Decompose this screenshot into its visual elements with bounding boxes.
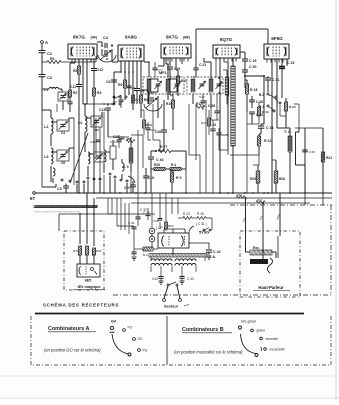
- svg-text:R17: R17: [257, 198, 263, 202]
- tone switch B2: [267, 93, 269, 95]
- bus wire 3: [131, 202, 310, 204]
- svg-text:R 26: R 26: [197, 212, 204, 216]
- trimmer C6b: [94, 152, 104, 162]
- svg-text:R3: R3: [97, 91, 101, 95]
- svg-text:C15: C15: [110, 140, 116, 144]
- wire: [185, 168, 187, 193]
- magic eye tube 6E5: [77, 264, 100, 277]
- resistor R27: [158, 149, 171, 152]
- svg-text:B 2: B 2: [259, 93, 264, 97]
- svg-text:B.A.: B.A.: [143, 253, 149, 257]
- speaker voice coil bar: [250, 259, 268, 264]
- resistor R32: [92, 248, 95, 255]
- svg-text:mmm m mmm mm m mmm mm mmm m mm: mmm m mmm mm m mmm mm mmm m mm: [34, 212, 80, 214]
- svg-text:R 20: R 20: [289, 105, 296, 109]
- svg-text:C 31: C 31: [272, 78, 279, 82]
- wire: [120, 61, 122, 72]
- tube V5 pin stubs: [266, 59, 268, 63]
- resistor R24b: [321, 152, 324, 162]
- wire: [130, 163, 132, 193]
- MF2 secondary coil: [209, 79, 213, 92]
- wire: [107, 198, 109, 214]
- IF transformer MF2 box: [187, 77, 223, 94]
- svg-text:R2: R2: [73, 91, 77, 95]
- capacitor C10: [67, 101, 72, 103]
- tube V4 6Q7G: [213, 45, 240, 58]
- wire: [41, 53, 43, 74]
- svg-text:R11: R11: [181, 79, 187, 83]
- resistor R8: [126, 140, 135, 143]
- wire: [150, 168, 152, 170]
- svg-text:Œil magique: Œil magique: [77, 284, 101, 289]
- ballast resistor: [143, 247, 153, 251]
- wire: [150, 257, 152, 261]
- svg-text:R 23: R 23: [183, 212, 190, 216]
- svg-text:L 9: L 9: [124, 165, 129, 169]
- svg-text:(MF): (MF): [183, 36, 190, 40]
- switch contacts: [87, 177, 89, 179]
- capacitor C45: [302, 149, 308, 151]
- svg-text:C14: C14: [90, 140, 96, 144]
- resistor R9: [170, 172, 173, 182]
- inductor L5b: [104, 150, 106, 162]
- svg-text:C6: C6: [61, 161, 65, 165]
- svg-text:L3: L3: [44, 155, 48, 159]
- svg-text:R 21: R 21: [264, 139, 271, 143]
- resistor R4b: [170, 167, 181, 170]
- resistor R30: [78, 246, 81, 255]
- tone switch B3: [267, 105, 269, 107]
- wire: [279, 105, 281, 116]
- wire: [159, 193, 161, 218]
- MF2 primary coil: [191, 79, 195, 92]
- mains switch: [167, 284, 169, 286]
- wire: [86, 72, 88, 104]
- wire: [192, 94, 194, 104]
- wire: [61, 61, 96, 63]
- svg-text:C1: C1: [47, 51, 53, 56]
- capacitor C38: [158, 218, 163, 220]
- svg-text:6E5: 6E5: [85, 279, 92, 283]
- capacitor C11a: [76, 84, 82, 86]
- svg-text:( C 41 ): ( C 41 ): [196, 222, 207, 226]
- capacitor C9: [119, 99, 124, 101]
- svg-text:R7: R7: [135, 98, 139, 102]
- wire: [99, 127, 101, 193]
- wire: [41, 110, 43, 187]
- resistor R25: [256, 171, 260, 183]
- svg-text:C 36: C 36: [128, 221, 135, 225]
- svg-text:R 27: R 27: [160, 145, 167, 149]
- switch wafer: [110, 146, 116, 159]
- junction dots: [120, 71, 122, 73]
- secondary winding: [225, 77, 229, 95]
- svg-text:A: A: [45, 40, 48, 45]
- resistor R6: [139, 95, 142, 103]
- svg-text:très grave: très grave: [241, 320, 256, 324]
- chassis dash-dot right boundary: [330, 205, 332, 295]
- capacitor C44: [179, 276, 184, 278]
- capacitor C3: [63, 185, 69, 187]
- svg-text:musicalité: musicalité: [270, 348, 285, 352]
- svg-text:SCHÉMA DES RÉCEPTEURS: SCHÉMA DES RÉCEPTEURS: [43, 303, 119, 308]
- legend divider: [166, 316, 168, 365]
- resistor R3a: [77, 66, 80, 74]
- resistor R19: [257, 107, 260, 116]
- wire: [56, 104, 58, 112]
- wire: [41, 77, 43, 88]
- MF1 primary trimmer: [156, 83, 161, 85]
- svg-text:C25: C25: [222, 133, 228, 137]
- svg-text:C 34: C 34: [266, 126, 273, 130]
- switch S1: [203, 229, 205, 231]
- svg-text:C11: C11: [70, 85, 76, 89]
- svg-text:C6: C6: [106, 80, 110, 84]
- tube V3 6K7G(MF): [161, 44, 191, 58]
- chassis ground bar: [34, 206, 97, 208]
- svg-text:C26: C26: [155, 130, 161, 134]
- capacitor C14b: [96, 139, 101, 141]
- resistor R11: [176, 76, 179, 84]
- svg-text:Haut-Parleur: Haut-Parleur: [258, 285, 284, 290]
- svg-text:5Y3G: 5Y3G: [199, 230, 209, 235]
- svg-text:FO: FO: [128, 326, 133, 330]
- svg-text:R25: R25: [250, 177, 256, 181]
- svg-text:C 42: C 42: [213, 250, 221, 254]
- legend box A border: [31, 316, 165, 365]
- switch contacts osc: [109, 173, 111, 175]
- capacitor C1: [39, 50, 46, 52]
- tube V5 6F6G: [264, 44, 289, 59]
- wave switch contacts: [61, 179, 63, 181]
- svg-text:( L P: ( L P: [156, 226, 163, 230]
- wire: [116, 198, 118, 226]
- resistor R17: [256, 201, 265, 204]
- svg-text:C20: C20: [124, 186, 130, 190]
- svg-text:Secteur: Secteur: [164, 304, 179, 309]
- svg-text:C 44: C 44: [187, 277, 194, 281]
- tube V1 pin stubs: [71, 59, 73, 62]
- resistor R13: [142, 120, 145, 128]
- svg-text:R28: R28: [154, 163, 160, 167]
- svg-text:C43: C43: [152, 277, 158, 281]
- plate supply wire: [196, 28, 268, 30]
- variable capacitor C21 with arc: [147, 96, 149, 104]
- capacitor C46: [151, 150, 156, 152]
- svg-text:R 4: R 4: [171, 163, 176, 167]
- svg-text:(en position musicalité sur le: (en position musicalité sur le schéma): [174, 350, 243, 355]
- svg-text:C 30: C 30: [249, 65, 256, 69]
- svg-text:R1: R1: [50, 57, 55, 61]
- antenna terminal A: [41, 41, 44, 44]
- wire: [163, 58, 165, 66]
- power transformer TA primary: [149, 254, 207, 258]
- svg-text:C4: C4: [61, 131, 65, 135]
- svg-text:GO: GO: [111, 320, 117, 324]
- wire grid coupling: [263, 76, 265, 120]
- svg-text:C12: C12: [97, 68, 103, 72]
- svg-text:R16: R16: [237, 193, 243, 197]
- wire: [41, 44, 43, 51]
- MF1 primary coil: [147, 79, 151, 92]
- switch blade: [70, 133, 88, 183]
- svg-text:6F6G: 6F6G: [271, 36, 283, 41]
- wire: [298, 104, 300, 128]
- wire: [50, 166, 52, 174]
- resistor R18: [245, 84, 248, 94]
- svg-text:C 21: C 21: [199, 63, 206, 67]
- capacitor C25: [216, 132, 221, 134]
- page edge artifact: [335, 0, 337, 400]
- wire: [59, 213, 155, 215]
- capacitor C33: [279, 66, 285, 68]
- resistor R3: [92, 88, 95, 96]
- resistor R21: [257, 136, 260, 146]
- oscillator coil L10: [129, 148, 133, 163]
- svg-text:R2: R2: [73, 69, 77, 73]
- padding capacitor C6a: [57, 150, 69, 161]
- wire: [304, 193, 306, 205]
- capacitor C16b: [153, 67, 158, 69]
- svg-text:R31: R31: [96, 249, 102, 253]
- svg-text:C 46: C 46: [156, 158, 163, 162]
- wire: [103, 112, 105, 150]
- capacitor C20: [130, 184, 136, 186]
- svg-text:Combinateurs A: Combinateurs A: [48, 326, 90, 332]
- inductor L4: [85, 116, 87, 132]
- wire: [215, 58, 217, 78]
- resistor R20: [284, 102, 287, 111]
- svg-text:R4: R4: [95, 128, 99, 132]
- svg-text:Exc.: Exc.: [253, 246, 260, 250]
- MF2 secondary trimmer: [217, 83, 222, 85]
- padding capacitor C4a: [57, 120, 69, 131]
- svg-text:C 28: C 28: [208, 104, 215, 108]
- resistor R1: [42, 61, 47, 63]
- capacitor C7: [127, 85, 132, 87]
- magic eye dashed box: [64, 231, 104, 290]
- bus wire 2: [96, 197, 332, 199]
- capacitor C42: [206, 249, 212, 251]
- svg-text:grave: grave: [257, 329, 266, 333]
- svg-text:6Q7G: 6Q7G: [220, 37, 233, 42]
- wire: [244, 76, 246, 88]
- wire: [74, 59, 76, 63]
- svg-text:PU: PU: [143, 349, 148, 353]
- capacitor C2: [39, 74, 46, 76]
- resistor R31: [85, 246, 88, 255]
- svg-text:C2: C2: [47, 75, 53, 80]
- capacitor C40: [131, 251, 136, 253]
- resistor R15: [208, 118, 211, 126]
- resistor R16: [236, 196, 245, 199]
- capacitor C19: [167, 66, 173, 68]
- junction dots on bus: [78, 192, 80, 194]
- inductor L5: [88, 152, 90, 164]
- resistor R5: [123, 80, 126, 88]
- speaker cone zigzag: [268, 258, 273, 273]
- svg-text:C3: C3: [57, 187, 62, 191]
- capacitor C30: [242, 69, 248, 71]
- resistor R24: [197, 217, 206, 220]
- inductor L3b: [53, 168, 55, 176]
- wire: [137, 130, 139, 193]
- svg-text:6T: 6T: [30, 196, 35, 201]
- wire: [148, 62, 150, 77]
- svg-text:Combinateurs B: Combinateurs B: [182, 327, 224, 333]
- wire rectifier output: [189, 242, 209, 244]
- resistor R26: [274, 171, 278, 183]
- dial lamps LP: [149, 228, 155, 234]
- tube V3 pin stubs: [163, 58, 165, 62]
- svg-text:C 33: C 33: [287, 61, 294, 65]
- svg-text:6A8G: 6A8G: [125, 35, 137, 40]
- legend top rule: [35, 313, 304, 315]
- svg-text:C 36: C 36: [256, 100, 263, 104]
- wire to speaker: [245, 198, 247, 244]
- svg-text:R30: R30: [73, 249, 79, 253]
- svg-text:C 29: C 29: [249, 59, 256, 63]
- resistor R10: [171, 100, 174, 108]
- speaker dashed box Haut-Parleur: [240, 231, 300, 297]
- capacitor C35: [249, 99, 255, 101]
- wire: [210, 108, 212, 120]
- antenna trimmer CV: [58, 92, 68, 101]
- svg-text:L2: L2: [44, 125, 48, 129]
- main bus wire: [35, 192, 332, 194]
- svg-text:C16: C16: [104, 150, 110, 154]
- svg-text:R26: R26: [279, 177, 285, 181]
- oscillator coil L9: [122, 163, 124, 171]
- wire: [76, 184, 78, 193]
- capacitor C8: [134, 88, 140, 90]
- wire mid verticals: [152, 104, 154, 140]
- mains plug Secteur: [163, 299, 166, 302]
- capacitor C31: [265, 77, 271, 79]
- IF transformer MF1 box: [143, 77, 184, 94]
- wire: [109, 176, 111, 193]
- power transformer TA secondaries: [151, 259, 172, 261]
- resistor R7: [132, 95, 135, 103]
- wire right side: [298, 128, 300, 132]
- wire: [159, 222, 161, 229]
- resistor R22: [165, 222, 168, 229]
- capacitor C26: [161, 129, 167, 131]
- svg-text:R 19: R 19: [262, 110, 269, 114]
- svg-text:C27: C27: [199, 95, 205, 99]
- wire: [230, 154, 259, 156]
- wire: [219, 58, 221, 193]
- tube V2 6A8G: [118, 45, 144, 61]
- capacitor C29: [242, 58, 248, 60]
- svg-text:R22: R22: [168, 224, 174, 228]
- svg-text:C45: C45: [309, 150, 315, 154]
- oscillator switch contacts: [113, 96, 115, 98]
- svg-text:C(7): C(7): [157, 68, 163, 72]
- MF1 secondary trimmer: [175, 83, 180, 85]
- svg-text:(HF): (HF): [91, 36, 98, 40]
- svg-text:R5: R5: [118, 83, 122, 87]
- switch blade arc: [128, 176, 135, 183]
- svg-text:C9: C9: [113, 100, 117, 104]
- capacitor C22: [146, 127, 151, 129]
- resistor R28: [154, 167, 165, 170]
- MF2 primary trimmer: [200, 83, 205, 85]
- capacitor C15: [116, 139, 121, 141]
- svg-text:C13: C13: [99, 108, 105, 112]
- svg-text:R 9: R 9: [176, 176, 182, 180]
- capacitor C18: [143, 175, 149, 177]
- capacitor C43: [158, 276, 163, 278]
- capacitor C23: [249, 111, 255, 113]
- oscillator trimmer C5a: [91, 116, 102, 127]
- capacitor C12: [91, 68, 97, 70]
- rectifier tube 5Y3G: [158, 233, 189, 248]
- resistor R23: [183, 217, 192, 220]
- svg-text:OC: OC: [138, 337, 144, 341]
- capacitor C13: [105, 107, 111, 109]
- capacitor C34: [258, 125, 264, 127]
- svg-text:6K7G: 6K7G: [166, 35, 178, 40]
- svg-text:R 18: R 18: [250, 88, 257, 92]
- chassis dash-dot bottom boundary: [113, 294, 331, 296]
- svg-text:C 37: C 37: [140, 208, 147, 212]
- MF1 secondary coil: [166, 79, 170, 92]
- svg-text:R10: R10: [166, 102, 172, 106]
- resistor R12: [196, 106, 205, 109]
- legend box B border: [169, 316, 331, 365]
- tube V4 pin stubs: [215, 58, 217, 62]
- svg-text:(en position GO sur le schéma): (en position GO sur le schéma): [44, 348, 101, 353]
- capacitor C6: [111, 79, 117, 81]
- terminal 6T: [33, 192, 36, 195]
- volume potentiometer: [231, 66, 235, 146]
- svg-text:normale: normale: [266, 337, 278, 341]
- tube V1 6K7G(HF): [68, 44, 97, 59]
- svg-text:R13: R13: [146, 123, 152, 127]
- svg-text:6K7G: 6K7G: [73, 35, 85, 40]
- variable capacitor C5 with arc: [101, 49, 103, 56]
- wire grid line y104: [83, 103, 114, 105]
- resistor R2: [69, 90, 72, 97]
- chassis dash-dot boundary: [230, 204, 332, 206]
- svg-text:R24: R24: [326, 156, 332, 160]
- svg-text:R15: R15: [201, 121, 207, 125]
- svg-text:C38: C38: [153, 219, 159, 223]
- svg-text:T A.: T A.: [209, 255, 216, 259]
- svg-text:C22: C22: [150, 128, 156, 132]
